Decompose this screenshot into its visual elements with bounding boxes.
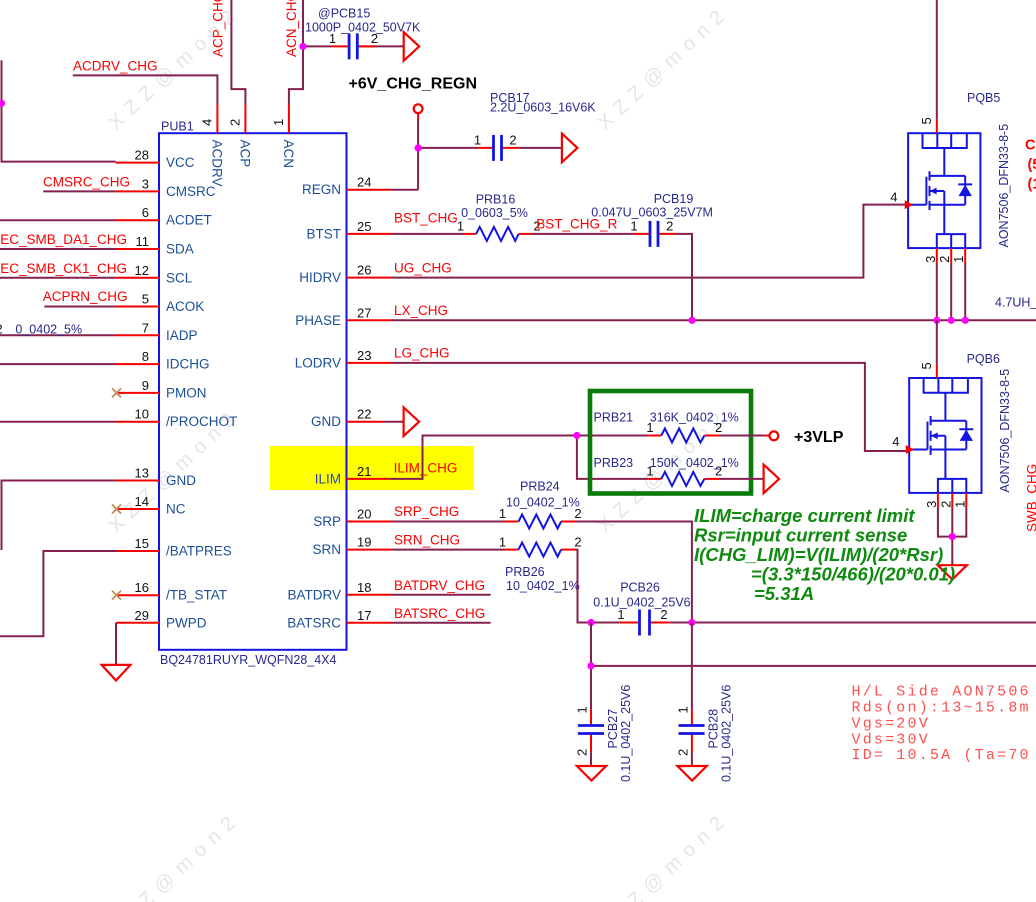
svg-text:316K_0402_1%: 316K_0402_1% <box>650 411 739 425</box>
svg-text:5: 5 <box>142 292 149 307</box>
svg-text:10: 10 <box>135 407 149 422</box>
svg-text:ACP: ACP <box>238 140 253 168</box>
wire BTST net vertical to PQB5 <box>936 0 938 119</box>
svg-text:18: 18 <box>357 580 371 595</box>
svg-text:BATSRC_CHG: BATSRC_CHG <box>394 606 485 621</box>
svg-text:23: 23 <box>357 348 371 363</box>
wire CMSRC_CHG <box>43 190 115 192</box>
wire ACDET <box>0 219 116 221</box>
svg-text:3: 3 <box>923 256 938 263</box>
svg-text:4: 4 <box>200 119 215 126</box>
svg-text:PCB27: PCB27 <box>606 709 620 749</box>
pin ACDET 6 <box>116 205 212 228</box>
pin IADP 7 <box>116 320 198 343</box>
wire SRN to rail1 <box>575 550 620 623</box>
wire PWPD to ground <box>115 623 117 665</box>
svg-text:28: 28 <box>135 148 149 163</box>
svg-text:0.047U_0603_25V7M: 0.047U_0603_25V7M <box>591 205 713 219</box>
svg-text:SRP: SRP <box>313 514 341 529</box>
svg-text:=(3.3*150/466)/(20*0.01): =(3.3*150/466)/(20*0.01) <box>751 564 955 585</box>
svg-text:4.7UH_4: 4.7UH_4 <box>995 296 1036 310</box>
resistor PRB21 <box>594 411 739 443</box>
svg-text:2: 2 <box>509 133 516 148</box>
wire PQB6 source join <box>938 508 966 565</box>
junction dot rail2/PCB27 <box>587 662 594 669</box>
svg-text:VCC: VCC <box>166 155 195 170</box>
svg-text:SRN_CHG: SRN_CHG <box>394 533 460 548</box>
svg-text:9: 9 <box>142 378 149 393</box>
wire GND13 <box>2 481 115 551</box>
svg-text:PMON: PMON <box>166 385 207 400</box>
svg-text:BTST: BTST <box>306 226 341 241</box>
svg-text:150K_0402_1%: 150K_0402_1% <box>650 456 739 470</box>
junction dot REGN node <box>415 144 422 151</box>
svg-text:3: 3 <box>142 176 149 191</box>
svg-text:PRB24: PRB24 <box>520 480 560 494</box>
pin SRP 20 <box>313 507 391 530</box>
wire EC_SMB_DA1_CHG <box>0 248 116 250</box>
svg-text:ACPRN_CHG: ACPRN_CHG <box>43 289 128 304</box>
svg-text:ACN: ACN <box>281 140 296 169</box>
svg-text:BATDRV_CHG: BATDRV_CHG <box>394 578 485 593</box>
svg-text:15: 15 <box>135 536 149 551</box>
wire BST_CHG_R <box>531 233 633 235</box>
wire PCB15 to offpage <box>359 45 404 47</box>
annotation green formula <box>694 505 955 604</box>
junction dot ACN/PCB15 <box>299 43 306 50</box>
svg-text:PUB1: PUB1 <box>161 120 194 134</box>
wire rail1 right <box>670 622 1036 624</box>
node +3VLP port circle <box>764 429 843 446</box>
wire rail2 <box>591 665 1036 667</box>
pin /BATPRES 15 <box>117 536 232 559</box>
svg-text:BST_CHG: BST_CHG <box>394 211 458 226</box>
wire PCB27 branch vertical <box>590 623 592 710</box>
svg-text:1: 1 <box>329 31 336 46</box>
wire ACPRN_CHG <box>44 306 115 308</box>
pin ACOK 5 <box>116 292 205 315</box>
svg-text:ACOK: ACOK <box>166 299 204 314</box>
svg-text:IDCHG: IDCHG <box>166 357 210 372</box>
svg-text:I(CHG_LIM)=V(ILIM)/(20*Rsr): I(CHG_LIM)=V(ILIM)/(20*Rsr) <box>694 544 943 565</box>
transistor PQB6 <box>892 352 1012 508</box>
wire LX_CHG rail <box>391 319 1036 321</box>
svg-text:ACDRV: ACDRV <box>210 140 225 187</box>
pin ILIM 21 <box>315 464 389 487</box>
svg-text:7: 7 <box>142 320 149 335</box>
wire LX to PQB6 drain <box>936 320 938 364</box>
svg-text:1: 1 <box>271 119 286 126</box>
svg-text:SWB_CHG: SWB_CHG <box>1025 464 1036 532</box>
wire BST_CHG <box>391 233 464 235</box>
svg-text:4: 4 <box>890 190 897 205</box>
svg-text:11: 11 <box>136 234 150 249</box>
svg-text:Rds(on):13~15.8m: Rds(on):13~15.8m <box>852 700 1031 717</box>
svg-text:1: 1 <box>646 420 653 435</box>
ground PCB27 <box>577 766 606 781</box>
wire IADP <box>0 334 116 336</box>
transistor PQB5 <box>890 91 1011 263</box>
svg-text:UG_CHG: UG_CHG <box>394 261 452 276</box>
svg-text:/PROCHOT: /PROCHOT <box>166 414 237 429</box>
svg-text:NC: NC <box>166 502 186 517</box>
svg-text:4: 4 <box>892 434 899 449</box>
svg-text:19: 19 <box>357 535 371 550</box>
svg-text:25: 25 <box>357 219 371 234</box>
svg-text:1: 1 <box>646 463 653 478</box>
svg-text:2: 2 <box>715 420 722 435</box>
wire SRN_CHG <box>391 549 505 551</box>
svg-text:1: 1 <box>675 706 690 713</box>
svg-text:ACDET: ACDET <box>166 213 212 228</box>
pin LODRV 23 <box>295 348 391 371</box>
wire PCB19 down to LX <box>675 234 692 320</box>
off-page connector ILIM divider out <box>764 465 780 494</box>
wire PQB5 pins to LX rail <box>937 263 965 320</box>
wire UG_CHG to PQB5 gate <box>391 205 905 278</box>
svg-text:ILIM: ILIM <box>315 471 341 486</box>
junction dot rail1/PCB27 <box>587 619 594 626</box>
pin ACN 1 top <box>271 104 296 168</box>
svg-text:1: 1 <box>457 219 464 234</box>
svg-text:PQB6: PQB6 <box>967 352 1000 366</box>
svg-text:BATSRC: BATSRC <box>287 615 341 630</box>
highlight ILIM <box>270 446 474 490</box>
svg-text:1: 1 <box>952 501 967 508</box>
junction dot VCC branch <box>0 100 5 107</box>
wire PCB28 branch vertical <box>691 623 693 710</box>
svg-text:LODRV: LODRV <box>295 355 341 370</box>
svg-text:GND: GND <box>311 414 341 429</box>
svg-text:1: 1 <box>575 706 590 713</box>
wire SRP_CHG <box>391 521 505 523</box>
wire PCB28 to ground <box>691 752 693 766</box>
svg-text:AON7506_DFN33-8-5: AON7506_DFN33-8-5 <box>998 369 1012 493</box>
pin GND 22 <box>311 407 383 430</box>
svg-text:0_0402_5%: 0_0402_5% <box>15 322 82 336</box>
pin /PROCHOT 10 <box>116 407 238 430</box>
svg-text:2: 2 <box>938 501 953 508</box>
svg-text:=5.31A: =5.31A <box>754 583 814 604</box>
svg-text:PRB16: PRB16 <box>476 192 516 206</box>
svg-text:IADP: IADP <box>166 328 198 343</box>
junction dot PQB6 source <box>949 533 956 540</box>
pin ACP 2 top <box>228 104 253 167</box>
svg-text:SCL: SCL <box>166 270 193 285</box>
capacitor PCB19 <box>591 192 713 247</box>
svg-text:PQB5: PQB5 <box>967 91 1000 105</box>
svg-text:20: 20 <box>357 507 371 522</box>
svg-text:ILIM=charge current limit: ILIM=charge current limit <box>694 505 915 526</box>
svg-text:REGN: REGN <box>302 182 341 197</box>
resistor PRB26 <box>499 534 582 593</box>
svg-text:C1: C1 <box>1025 138 1036 154</box>
svg-text:EC_SMB_DA1_CHG: EC_SMB_DA1_CHG <box>0 232 127 247</box>
svg-text:ID= 10.5A (Ta=70: ID= 10.5A (Ta=70 <box>852 747 1031 764</box>
svg-text:SRN: SRN <box>312 542 341 557</box>
svg-text:2: 2 <box>715 463 722 478</box>
svg-text:2: 2 <box>937 256 952 263</box>
svg-text:1: 1 <box>617 607 624 622</box>
wire /PROCHOT <box>0 421 116 423</box>
capacitor PCB28 <box>675 685 733 782</box>
svg-text:CMSRC: CMSRC <box>166 184 216 199</box>
svg-text:21: 21 <box>357 464 371 479</box>
pin PHASE 27 <box>295 305 391 328</box>
pin /TB_STAT 16 <box>112 580 227 603</box>
svg-text:1: 1 <box>951 256 966 263</box>
svg-text:6: 6 <box>142 205 149 220</box>
svg-text:/TB_STAT: /TB_STAT <box>166 588 227 603</box>
svg-text:16: 16 <box>135 580 149 595</box>
wire BATSRC_CHG <box>391 622 491 624</box>
svg-text:ACN_CHG: ACN_CHG <box>284 0 299 57</box>
svg-text:1: 1 <box>499 534 506 549</box>
wire PCB17 to offpage <box>519 147 562 149</box>
pin GND 13 <box>115 466 197 489</box>
off-page connector GND22 <box>404 407 420 436</box>
svg-text:SRP_CHG: SRP_CHG <box>394 504 459 519</box>
junction dots PQB5 source on LX <box>933 317 969 324</box>
svg-text:PRB23: PRB23 <box>594 456 634 470</box>
svg-text:(5: (5 <box>1028 157 1036 173</box>
svg-text:PCB28: PCB28 <box>707 709 721 749</box>
svg-text:12: 12 <box>135 263 149 278</box>
pin BTST 25 <box>306 219 391 242</box>
off-page connector REGN out <box>562 134 578 163</box>
svg-text:ACDRV_CHG: ACDRV_CHG <box>73 58 158 73</box>
svg-text:24: 24 <box>357 175 371 190</box>
svg-text:+6V_CHG_REGN: +6V_CHG_REGN <box>349 76 478 93</box>
pin VCC 28 <box>116 148 195 171</box>
wire EC_SMB_CK1_CHG <box>0 277 116 279</box>
svg-text:2: 2 <box>575 749 590 756</box>
svg-text:/BATPRES: /BATPRES <box>166 544 232 559</box>
pin REGN 24 <box>302 175 391 198</box>
node +6V_CHG_REGN port circle <box>349 76 478 120</box>
svg-text:@PCB15: @PCB15 <box>318 7 370 21</box>
svg-text:GND: GND <box>166 473 196 488</box>
svg-text:H/L Side AON7506: H/L Side AON7506 <box>852 683 1031 700</box>
wire BATDRV_CHG <box>391 594 491 596</box>
off-page connector PCB15 out <box>404 32 420 61</box>
svg-text:BATDRV: BATDRV <box>287 587 341 602</box>
svg-text:EC_SMB_CK1_CHG: EC_SMB_CK1_CHG <box>0 261 127 276</box>
svg-text:Vds=30V: Vds=30V <box>852 731 930 748</box>
capacitor PCB17 <box>474 91 596 161</box>
svg-text:0.1U_0402_25V6: 0.1U_0402_25V6 <box>619 685 633 782</box>
svg-text:Rsr=input current sense: Rsr=input current sense <box>694 525 907 546</box>
green emphasis box <box>590 391 751 494</box>
wire GND22 stub <box>383 421 403 423</box>
junction dot ILIM node <box>573 432 580 439</box>
svg-text:14: 14 <box>135 494 149 509</box>
svg-text:2: 2 <box>228 119 243 126</box>
junction dot PCB19/LX <box>688 317 695 324</box>
svg-text:17: 17 <box>357 608 371 623</box>
svg-text:22: 22 <box>357 407 371 422</box>
pin HIDRV 26 <box>299 263 391 286</box>
svg-text:5: 5 <box>919 362 934 369</box>
svg-text:2: 2 <box>574 506 581 521</box>
capacitor PCB27 <box>575 685 634 782</box>
svg-text:26: 26 <box>357 263 371 278</box>
wire REGN node <box>391 120 477 190</box>
svg-text:PRB26: PRB26 <box>505 565 545 579</box>
svg-text:2: 2 <box>666 219 673 234</box>
svg-text:10_0402_1%: 10_0402_1% <box>506 495 580 509</box>
svg-text:ACP_CHG: ACP_CHG <box>211 0 226 57</box>
wire ACN_CHG feed <box>289 0 303 104</box>
junction dot rail1/PCB28 <box>688 619 695 626</box>
resistor PRB24 <box>499 480 582 529</box>
svg-text:0.1U_0402_25V6: 0.1U_0402_25V6 <box>593 595 690 609</box>
op-amp-ic U-PUB1 body <box>159 120 347 668</box>
svg-text:+3VLP: +3VLP <box>794 429 844 446</box>
wire IDCHG <box>0 363 116 365</box>
svg-text:BQ24781RUYR_WQFN28_4X4: BQ24781RUYR_WQFN28_4X4 <box>160 653 337 667</box>
ground PQB6 <box>938 565 967 579</box>
svg-text:SDA: SDA <box>166 242 194 257</box>
svg-text:(1: (1 <box>1028 177 1036 193</box>
pin BATDRV 18 <box>287 580 391 603</box>
svg-text:ILIM_CHG: ILIM_CHG <box>394 461 458 476</box>
svg-text:Vgs=20V: Vgs=20V <box>852 715 930 732</box>
svg-text:2: 2 <box>675 749 690 756</box>
svg-text:3: 3 <box>924 501 939 508</box>
ground for PWPD <box>102 665 131 681</box>
svg-text:0.1U_0402_25V6: 0.1U_0402_25V6 <box>720 685 734 782</box>
pin SRN 19 <box>312 535 391 558</box>
svg-text:PCB26: PCB26 <box>620 581 660 595</box>
pin ACDRV 4 top <box>200 104 225 186</box>
svg-text:2: 2 <box>371 31 378 46</box>
svg-text:13: 13 <box>135 466 149 481</box>
svg-text:27: 27 <box>357 305 371 320</box>
svg-text:1: 1 <box>474 133 481 148</box>
svg-text:2: 2 <box>0 321 3 336</box>
svg-text:29: 29 <box>135 608 149 623</box>
svg-text:8: 8 <box>142 349 149 364</box>
pin PMON 9 <box>112 378 207 401</box>
svg-text:2: 2 <box>660 607 667 622</box>
pin IDCHG 8 <box>116 349 210 372</box>
pin SCL 12 <box>116 263 193 286</box>
svg-text:5: 5 <box>919 117 934 124</box>
wire /BATPRES <box>0 551 117 636</box>
svg-text:PRB21: PRB21 <box>594 411 634 425</box>
svg-text:2: 2 <box>574 534 581 549</box>
svg-text:LX_CHG: LX_CHG <box>394 303 448 318</box>
wire ILIM_CHG to divider <box>389 436 649 479</box>
capacitor PCB26 <box>593 581 690 636</box>
pin SDA 11 <box>116 234 194 257</box>
svg-text:AON7506_DFN33-8-5: AON7506_DFN33-8-5 <box>997 124 1011 248</box>
svg-text:LG_CHG: LG_CHG <box>394 346 450 361</box>
wire VCC feed <box>2 60 116 161</box>
wire ACN to PCB15 <box>303 45 331 47</box>
svg-text:PCB19: PCB19 <box>654 192 694 206</box>
wire PRB23 to offpage <box>720 478 764 480</box>
svg-text:CMSRC_CHG: CMSRC_CHG <box>43 174 130 189</box>
svg-text:0_0603_5%: 0_0603_5% <box>461 206 528 220</box>
pin BATSRC 17 <box>287 608 391 631</box>
svg-text:10_0402_1%: 10_0402_1% <box>506 579 580 593</box>
resistor PRB23 <box>594 456 739 486</box>
svg-text:PHASE: PHASE <box>295 313 341 328</box>
svg-text:2.2U_0603_16V6K: 2.2U_0603_16V6K <box>490 101 596 115</box>
wire PRB21 to +3VLP <box>720 435 764 437</box>
svg-text:HIDRV: HIDRV <box>299 270 341 285</box>
svg-text:PWPD: PWPD <box>166 615 207 630</box>
ground PCB28 <box>678 766 707 781</box>
resistor PRB16 <box>457 192 541 241</box>
svg-text:1: 1 <box>499 506 506 521</box>
pin CMSRC 3 <box>116 176 216 199</box>
wire LG_CHG to PQB6 gate <box>391 363 906 451</box>
pin PWPD 29 <box>116 608 207 631</box>
pin NC 14 <box>112 494 186 517</box>
wire PCB27 to ground <box>590 752 592 766</box>
wire SRP to PCB26 node <box>575 522 692 623</box>
svg-text:1: 1 <box>630 219 637 234</box>
wire ACP_CHG feed <box>231 0 245 104</box>
capacitor PCB15 <box>305 7 421 60</box>
wire ACDRV_CHG <box>73 75 218 104</box>
annotation H/L side notes <box>852 683 1031 764</box>
